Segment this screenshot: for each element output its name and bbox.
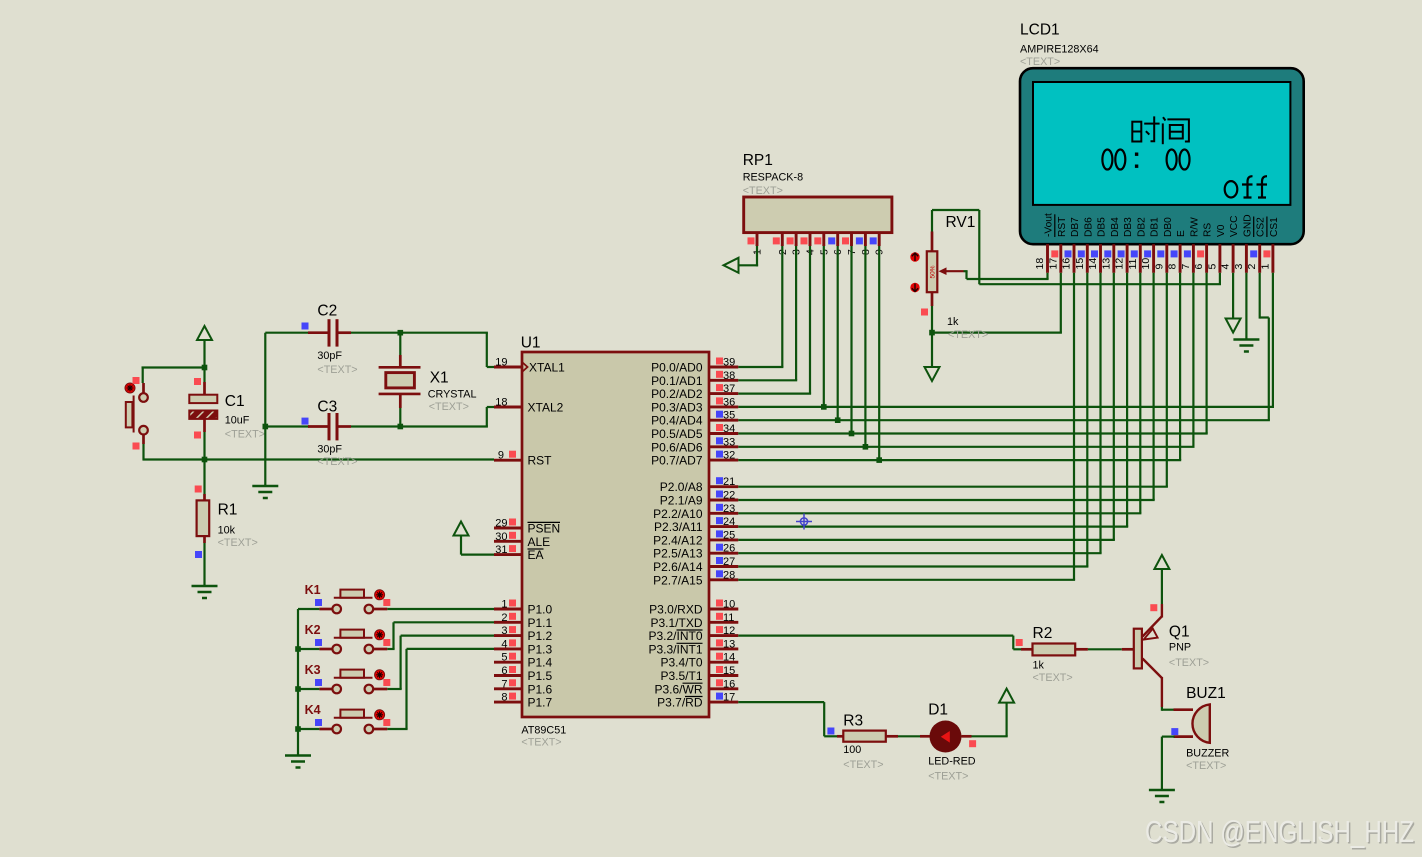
wire [967, 278, 1049, 280]
svg-text:PSEN: PSEN [528, 522, 561, 536]
wire [1259, 273, 1261, 319]
svg-text:DB7: DB7 [1070, 217, 1081, 237]
wire [1073, 273, 1075, 580]
wire [297, 609, 299, 755]
svg-text:1k: 1k [1033, 659, 1045, 671]
svg-text:11: 11 [1127, 258, 1139, 269]
button knob marker [125, 383, 135, 393]
wire [387, 608, 494, 610]
svg-text:23: 23 [723, 503, 735, 515]
wire [203, 494, 206, 500]
svg-text:P3.2/INT0: P3.2/INT0 [648, 629, 702, 643]
wire [781, 246, 783, 367]
wire [965, 271, 967, 279]
svg-text:E: E [1176, 230, 1187, 237]
wire [809, 233, 812, 246]
svg-text:<TEXT>: <TEXT> [743, 185, 783, 197]
svg-text:P1.1: P1.1 [528, 616, 553, 630]
wire [738, 552, 1101, 554]
wire [709, 419, 738, 422]
wire [387, 688, 401, 690]
svg-text:DB2: DB2 [1136, 217, 1147, 237]
svg-text:DB1: DB1 [1150, 217, 1161, 237]
svg-text:21: 21 [723, 476, 735, 488]
svg-text:39: 39 [723, 357, 735, 369]
wire [1245, 273, 1247, 340]
svg-text:5: 5 [501, 652, 507, 664]
svg-text:LED-RED: LED-RED [928, 756, 976, 768]
wire [709, 432, 738, 435]
wire [142, 383, 145, 394]
svg-text:3: 3 [501, 625, 507, 637]
svg-text:P2.0/A8: P2.0/A8 [660, 480, 703, 494]
transistor Q1 PNP [1134, 629, 1142, 669]
origin marker crosshair [796, 514, 812, 530]
wire [1073, 244, 1076, 273]
ground below C2/C3 [252, 486, 278, 498]
svg-text:K4: K4 [305, 703, 321, 717]
junction [863, 444, 869, 450]
svg-text:14: 14 [723, 652, 735, 664]
wire [1059, 244, 1062, 273]
LED D1 LED-RED [930, 721, 962, 753]
LCD screen text 00:00 [1102, 150, 1189, 170]
wire [339, 425, 352, 428]
junction [263, 424, 269, 430]
wire [931, 232, 934, 252]
wire [864, 246, 866, 447]
junction [398, 330, 404, 336]
wire [407, 648, 495, 650]
svg-text:8: 8 [1167, 264, 1179, 270]
svg-text:28: 28 [723, 569, 735, 581]
wire [319, 648, 332, 651]
junction [202, 365, 208, 371]
svg-text:PNP: PNP [1169, 642, 1191, 654]
wire arrow to emitter [1161, 569, 1163, 604]
wire [756, 233, 759, 246]
svg-text:VCC: VCC [1229, 215, 1240, 237]
power arrow left (RP1 common) [724, 258, 739, 273]
wire [1179, 273, 1181, 460]
svg-text:P1.2: P1.2 [528, 629, 553, 643]
wire [387, 728, 407, 730]
wire [298, 728, 319, 730]
svg-text:CSDN @ENGLISH_HHZ: CSDN @ENGLISH_HHZ [1145, 814, 1414, 849]
junction [295, 726, 301, 732]
wire C3 left [265, 425, 309, 427]
wire [494, 647, 522, 650]
junction [202, 457, 208, 463]
svg-text:DB4: DB4 [1110, 217, 1121, 237]
wire [1099, 244, 1102, 273]
power VCC arrow right of D1 [999, 689, 1014, 703]
wire [878, 233, 881, 246]
wire [374, 728, 388, 731]
wire [962, 735, 972, 738]
svg-text:P3.3/INT1: P3.3/INT1 [648, 642, 702, 656]
wire [319, 608, 332, 611]
wire VCC rail left to button [142, 366, 206, 368]
wire [1166, 273, 1168, 487]
resistor R3 100 [827, 728, 834, 735]
wire [298, 688, 319, 690]
wire [405, 649, 407, 729]
svg-text:AT89C51: AT89C51 [521, 725, 566, 737]
svg-text:P0.4/AD4: P0.4/AD4 [651, 414, 703, 428]
wire [738, 459, 1181, 461]
svg-text:P2.1/A9: P2.1/A9 [660, 494, 703, 508]
svg-text:R2: R2 [1033, 625, 1053, 642]
svg-text:BUZ1: BUZ1 [1186, 685, 1226, 702]
wire [319, 728, 332, 731]
svg-text:CRYSTAL: CRYSTAL [428, 388, 477, 400]
wire [203, 419, 206, 432]
wire [1099, 273, 1101, 553]
wire [1219, 273, 1221, 284]
wire [709, 392, 738, 395]
svg-text:DB5: DB5 [1097, 217, 1108, 237]
wire [878, 246, 880, 460]
svg-text:38: 38 [723, 370, 735, 382]
svg-text:6: 6 [501, 665, 507, 677]
svg-text:15: 15 [723, 665, 735, 677]
junction [849, 431, 855, 437]
svg-text:DB0: DB0 [1163, 217, 1174, 237]
wire [738, 701, 824, 703]
svg-text:RS: RS [1203, 223, 1214, 237]
svg-text:12: 12 [723, 625, 735, 637]
svg-text:5: 5 [1206, 264, 1218, 270]
wire [709, 459, 738, 462]
power down arrow below RV1 [925, 367, 940, 381]
wire down to reset button [142, 368, 144, 384]
Q1 PNP emitter arrow [1144, 629, 1158, 640]
wire [1192, 244, 1195, 273]
junction [398, 424, 404, 430]
wire [709, 608, 738, 611]
svg-text:C2: C2 [317, 302, 337, 319]
wire [461, 553, 494, 555]
svg-text:<TEXT>: <TEXT> [218, 537, 258, 549]
wire [374, 688, 388, 691]
svg-text:P1.7: P1.7 [528, 696, 553, 710]
svg-text:<TEXT>: <TEXT> [1169, 657, 1209, 669]
svg-text:10uF: 10uF [225, 415, 250, 427]
wire [709, 701, 738, 704]
wire [1165, 244, 1168, 273]
svg-text:P2.6/A14: P2.6/A14 [653, 560, 703, 574]
svg-text:GND: GND [1242, 214, 1253, 237]
svg-text:30pF: 30pF [317, 350, 342, 362]
wire [738, 446, 1194, 448]
svg-text:<TEXT>: <TEXT> [1020, 56, 1060, 68]
svg-text:6: 6 [1193, 264, 1205, 270]
svg-text:DB3: DB3 [1123, 217, 1134, 237]
wire [756, 246, 758, 266]
svg-text:<TEXT>: <TEXT> [317, 456, 357, 468]
wire [709, 512, 738, 515]
wire [1161, 707, 1163, 711]
svg-text:CS2: CS2 [1256, 217, 1267, 237]
svg-text:24: 24 [723, 516, 735, 528]
svg-text:RV1: RV1 [946, 214, 976, 231]
wire [399, 355, 402, 367]
wire [494, 553, 522, 556]
wire [1258, 244, 1261, 273]
svg-text:34: 34 [723, 423, 735, 435]
wire [1112, 244, 1115, 273]
svg-text:10: 10 [1140, 258, 1152, 270]
svg-text:<TEXT>: <TEXT> [225, 429, 265, 441]
svg-text:18: 18 [495, 397, 507, 409]
wire [264, 333, 266, 486]
wire [738, 379, 797, 381]
wire [203, 536, 206, 543]
wire [864, 233, 867, 246]
RV1 wiper arrow [944, 270, 964, 272]
svg-text:BUZZER: BUZZER [1186, 748, 1229, 760]
junction [295, 646, 301, 652]
wire [1205, 244, 1208, 273]
wire C2 left [265, 332, 309, 334]
svg-text:<TEXT>: <TEXT> [429, 401, 469, 413]
svg-text:P1.4: P1.4 [528, 656, 553, 670]
wire [1161, 737, 1163, 790]
svg-text:RST: RST [528, 454, 553, 468]
power VCC arrow above EA [454, 522, 469, 536]
LCD screen text 时间 [1132, 116, 1189, 144]
junction [876, 457, 882, 463]
wire [738, 366, 783, 368]
wire [964, 270, 968, 272]
wire [339, 331, 352, 334]
ground below R1 [192, 586, 218, 598]
wire [1046, 273, 1048, 279]
wire [142, 435, 145, 445]
svg-text:P1.6: P1.6 [528, 682, 553, 696]
wire [709, 379, 738, 382]
wire [738, 486, 1168, 488]
svg-text:17: 17 [1047, 258, 1059, 270]
svg-text:ALE: ALE [528, 535, 551, 549]
wire [931, 306, 933, 367]
wire [739, 264, 758, 266]
svg-text:P1.5: P1.5 [528, 669, 553, 683]
svg-text:P3.0/RXD: P3.0/RXD [649, 603, 703, 617]
wire [494, 687, 522, 690]
wire [738, 406, 1274, 408]
svg-text:1: 1 [501, 599, 507, 611]
svg-text:11: 11 [723, 612, 734, 624]
wire [143, 458, 494, 460]
svg-text:P0.5/AD5: P0.5/AD5 [651, 427, 703, 441]
power VCC arrow above C1 [197, 326, 212, 340]
wire [738, 432, 1207, 434]
wire [1192, 273, 1194, 447]
resistor pack RP1 RESPACK-8 [744, 197, 892, 233]
svg-text:<TEXT>: <TEXT> [928, 770, 968, 782]
wire [738, 634, 1013, 636]
wire [709, 578, 738, 581]
svg-text:P3.7/RD: P3.7/RD [657, 696, 703, 710]
wire [1232, 244, 1235, 273]
svg-text:P2.7/A15: P2.7/A15 [653, 573, 703, 587]
svg-text:30pF: 30pF [317, 444, 342, 456]
wire [298, 648, 319, 650]
svg-text:3: 3 [1233, 264, 1245, 270]
wire [494, 366, 522, 369]
wire [978, 210, 980, 284]
wire [494, 674, 522, 677]
svg-text:12: 12 [1114, 258, 1126, 270]
junction [835, 417, 841, 423]
ground below BUZ1 [1149, 790, 1175, 802]
wire [1113, 273, 1115, 540]
svg-text:XTAL2: XTAL2 [528, 401, 564, 415]
svg-text:P0.3/AD3: P0.3/AD3 [651, 400, 703, 414]
wire [1152, 273, 1154, 500]
wire [494, 701, 522, 704]
wire [1232, 273, 1234, 319]
svg-text:LCD1: LCD1 [1020, 22, 1060, 39]
svg-text:CS1: CS1 [1269, 217, 1280, 237]
wire [1162, 709, 1174, 711]
svg-text:13: 13 [1100, 258, 1112, 270]
svg-text:P1.0: P1.0 [528, 603, 553, 617]
wire [400, 636, 402, 689]
svg-text:RESPACK-8: RESPACK-8 [743, 172, 803, 184]
wire [1179, 244, 1182, 273]
svg-text:EA: EA [528, 548, 544, 562]
wire [738, 579, 1075, 581]
wire [494, 621, 522, 624]
wire [837, 246, 839, 420]
wire [1005, 703, 1007, 737]
wire [494, 459, 522, 462]
svg-text:-Vout: -Vout [1044, 213, 1055, 237]
svg-text:D1: D1 [928, 702, 948, 719]
svg-text:31: 31 [495, 544, 507, 556]
svg-text:P3.5/T1: P3.5/T1 [660, 669, 702, 683]
wire [374, 648, 388, 651]
svg-text:16: 16 [723, 678, 735, 690]
wire [401, 634, 494, 636]
wire [738, 393, 811, 395]
wire [1139, 244, 1142, 273]
wire [1088, 648, 1122, 650]
svg-text:25: 25 [723, 529, 735, 541]
svg-text:<TEXT>: <TEXT> [521, 737, 561, 749]
wire [1046, 244, 1049, 273]
svg-text:P0.0/AD0: P0.0/AD0 [651, 361, 703, 375]
svg-text:37: 37 [723, 383, 735, 395]
wire [319, 688, 332, 691]
wire [399, 394, 402, 408]
wire [392, 622, 394, 649]
svg-text:17: 17 [723, 692, 735, 704]
wire [1075, 648, 1088, 651]
svg-text:P2.2/A10: P2.2/A10 [653, 507, 703, 521]
wire [1012, 636, 1014, 650]
wire [1271, 244, 1274, 273]
wire [795, 233, 798, 246]
svg-text:100: 100 [843, 744, 861, 756]
wire [709, 485, 738, 488]
wire [1268, 318, 1270, 421]
wire [1272, 273, 1274, 407]
svg-text:<TEXT>: <TEXT> [843, 759, 883, 771]
LCD screen text off [1225, 176, 1267, 197]
wire RV1 top [931, 210, 933, 232]
svg-text:36: 36 [723, 396, 735, 408]
wire [1126, 273, 1128, 527]
svg-text:18: 18 [1034, 258, 1046, 270]
wire [487, 406, 494, 408]
svg-text:7: 7 [1180, 264, 1192, 270]
svg-text:P2.5/A13: P2.5/A13 [653, 547, 703, 561]
wire [1174, 735, 1194, 738]
wire [308, 331, 328, 334]
wire [203, 368, 205, 383]
wire [709, 445, 738, 448]
svg-text:2: 2 [1246, 264, 1258, 270]
wire up to XTAL2 [486, 407, 488, 427]
svg-text:C3: C3 [317, 398, 337, 415]
svg-text:10k: 10k [218, 525, 236, 537]
wire [1122, 648, 1134, 651]
wire [1139, 273, 1141, 514]
wire [738, 512, 1141, 514]
wire [1245, 244, 1248, 273]
junction [295, 686, 301, 692]
svg-text:30: 30 [495, 531, 507, 543]
wire [203, 382, 206, 395]
svg-text:<TEXT>: <TEXT> [1033, 672, 1073, 684]
wire [850, 233, 853, 246]
svg-text:15: 15 [1074, 258, 1086, 270]
wire C2 to XTAL1 corner [351, 332, 488, 334]
svg-text:K1: K1 [305, 583, 321, 597]
svg-text:29: 29 [495, 518, 507, 530]
wire [203, 432, 205, 461]
svg-text:P0.2/AD2: P0.2/AD2 [651, 387, 703, 401]
wire [308, 425, 328, 428]
svg-text:P3.6/WR: P3.6/WR [654, 682, 702, 696]
wire [1218, 244, 1221, 273]
wire [387, 648, 394, 650]
wire [394, 621, 495, 623]
svg-text:22: 22 [723, 490, 735, 502]
svg-text:R/W: R/W [1189, 217, 1200, 237]
wire [487, 366, 494, 368]
wire [494, 406, 522, 409]
wire [1086, 273, 1088, 567]
svg-text:26: 26 [723, 543, 735, 555]
svg-text:<TEXT>: <TEXT> [317, 364, 357, 376]
wire [709, 538, 738, 541]
svg-text:DB6: DB6 [1083, 217, 1094, 237]
ground below LCD GND [1233, 340, 1259, 352]
svg-text:P2.3/A11: P2.3/A11 [654, 520, 703, 534]
junction [821, 404, 827, 410]
wire [399, 333, 401, 355]
wire [932, 332, 1062, 334]
resistor R2 1k [1016, 639, 1023, 646]
svg-text:XTAL1: XTAL1 [529, 361, 565, 375]
wire [709, 661, 738, 664]
power down arrow below LCD VCC [1226, 319, 1241, 333]
